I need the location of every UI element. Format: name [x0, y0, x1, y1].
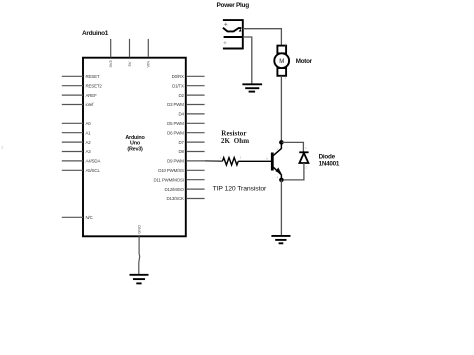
svg-text:RESET: RESET — [86, 74, 100, 79]
Arduino Uno (Rev3) component body — [83, 58, 186, 237]
motor M1 — [274, 46, 289, 76]
pin N/C wire — [62, 216, 83, 218]
power plug + mark top — [224, 23, 227, 26]
svg-text:3V3: 3V3 — [108, 60, 113, 68]
pin D3 PWM wire — [186, 104, 204, 106]
wire D9 to resistor — [205, 160, 223, 162]
svg-text:D6 PWM: D6 PWM — [167, 130, 184, 135]
transistor emitter arrowhead — [276, 168, 282, 175]
svg-text:1N4001: 1N4001 — [319, 160, 340, 167]
svg-text:D5 PWM: D5 PWM — [167, 121, 184, 126]
pin D9 PWM wire — [186, 160, 204, 162]
diode pin marks — [305, 146, 307, 170]
svg-text:D1/TX: D1/TX — [172, 83, 184, 88]
svg-text:1: 1 — [1, 146, 3, 150]
Arduino body name text — [125, 135, 145, 153]
pin D10 PWM/SS wire — [186, 169, 204, 171]
svg-text:D12/MISO: D12/MISO — [165, 187, 185, 192]
svg-text:A3: A3 — [86, 149, 92, 154]
svg-text:D7: D7 — [178, 140, 184, 145]
svg-text:A2: A2 — [86, 140, 92, 145]
wire motor to collector node — [280, 76, 282, 143]
pin D6 PWM wire — [186, 132, 204, 134]
pin AREF wire — [62, 94, 83, 96]
pin D13/SCK wire — [186, 198, 204, 200]
svg-text:(Rev3): (Rev3) — [127, 146, 143, 152]
svg-text:A1: A1 — [86, 130, 92, 135]
svg-text:D2: D2 — [178, 93, 184, 98]
pin D11 PWM/MOSI wire — [186, 179, 204, 181]
pin RESET wire — [62, 75, 83, 77]
wire collector node to diode — [281, 142, 303, 152]
svg-text:A5/SCL: A5/SCL — [86, 168, 101, 173]
motor pin marks — [285, 42, 287, 79]
svg-text:D8: D8 — [178, 149, 184, 154]
pin A1 wire — [62, 132, 83, 134]
pin A2 wire — [62, 141, 83, 143]
ground GND2 (power plug) — [242, 84, 262, 91]
svg-text:Power Plug: Power Plug — [217, 2, 250, 9]
resistor pin marks — [220, 155, 242, 159]
ground GND1 (Arduino) — [130, 275, 149, 284]
svg-text:D0/RX: D0/RX — [172, 74, 184, 79]
svg-text:ioref: ioref — [86, 102, 95, 107]
pin D0/RX wire — [186, 75, 204, 77]
node emitter junction dot — [279, 178, 284, 183]
pin A3 wire — [62, 151, 83, 153]
wire resistor to base — [238, 160, 271, 162]
pin 3V3 wire — [110, 39, 112, 58]
svg-text:A0: A0 — [86, 121, 92, 126]
pin D5 PWM wire — [186, 122, 204, 124]
svg-text:TIP 120 Transistor: TIP 120 Transistor — [213, 185, 267, 192]
pin D4 wire — [186, 113, 204, 115]
svg-text:D10 PWM/SS: D10 PWM/SS — [158, 168, 184, 173]
resistor label — [221, 130, 249, 145]
resistor R1 zigzag — [222, 158, 238, 165]
svg-text:VIN: VIN — [146, 61, 151, 68]
power plug switch arrowhead — [239, 29, 242, 32]
pin ioref wire — [62, 104, 83, 106]
pin D12/MISO wire — [186, 188, 204, 190]
pin A0 wire — [62, 122, 83, 124]
diode D1 1N4001 — [299, 152, 308, 163]
svg-text:5V: 5V — [127, 61, 132, 66]
wire power plug to motor — [243, 29, 282, 46]
pin VIN wire — [147, 39, 149, 58]
pin D1/TX wire — [186, 85, 204, 87]
svg-text:Motor: Motor — [296, 58, 313, 65]
svg-text:N/C: N/C — [86, 215, 93, 220]
wire power plug to ground — [243, 37, 252, 84]
svg-text:RESET2: RESET2 — [86, 83, 103, 88]
pin D8 wire — [186, 151, 204, 153]
pin A5/SCL wire — [62, 169, 83, 171]
wire diode to emitter node — [284, 163, 304, 180]
pin A4/SDA wire — [62, 160, 83, 162]
svg-text:D4: D4 — [178, 112, 184, 117]
svg-text:A4/SDA: A4/SDA — [86, 159, 101, 164]
pin RESET2 wire — [62, 85, 83, 87]
svg-text:D11 PWM/MOSI: D11 PWM/MOSI — [153, 177, 183, 182]
svg-text:GND: GND — [137, 225, 142, 234]
transistor Q1 TIP120 — [272, 142, 281, 180]
svg-text:D13/SCK: D13/SCK — [167, 196, 184, 201]
power plug J1 symbol — [223, 19, 243, 49]
wire emitter to ground — [280, 180, 282, 236]
power plug + mark bottom — [224, 41, 227, 44]
transistor pin marks — [267, 148, 279, 179]
ground GND3 (emitter) — [271, 236, 290, 243]
pin GND wire — [138, 236, 141, 274]
diode label — [319, 154, 340, 168]
svg-text:Arduino1: Arduino1 — [82, 30, 109, 37]
svg-text:D3 PWM: D3 PWM — [167, 102, 184, 107]
pin D2 wire — [186, 94, 204, 96]
svg-text:2K Ohm: 2K Ohm — [221, 137, 249, 145]
svg-text:M: M — [279, 59, 284, 65]
pin D7 wire — [186, 141, 204, 143]
svg-text:AREF: AREF — [86, 93, 98, 98]
svg-text:D9 PWM: D9 PWM — [167, 159, 184, 164]
node collector junction dot — [279, 140, 284, 145]
pin 5V wire — [129, 39, 131, 58]
